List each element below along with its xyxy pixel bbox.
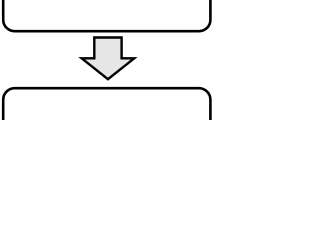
down arrow: [82, 38, 135, 80]
top rounded box: [3, 0, 210, 31]
bottom rounded box: [3, 88, 210, 148]
